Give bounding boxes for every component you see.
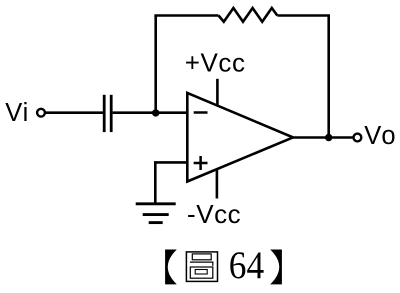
wire feedback top right segment xyxy=(277,14,330,17)
wire op-amp output xyxy=(293,136,354,139)
op-amp U1 triangle xyxy=(187,93,293,182)
+Vcc label xyxy=(185,47,246,77)
node Vi label xyxy=(5,99,29,127)
caption character 圖 xyxy=(186,252,217,282)
svg-text:64: 64 xyxy=(229,244,264,287)
wire feedback left vertical xyxy=(154,16,157,113)
wire -Vcc supply to op-amp bottom xyxy=(216,170,219,199)
wire Vi terminal to capacitor xyxy=(45,111,103,114)
wire capacitor to op-amp inverting input xyxy=(113,111,188,114)
ground xyxy=(136,204,176,223)
input terminal Vi xyxy=(37,109,45,117)
wire feedback right vertical xyxy=(327,16,330,138)
wire feedback top left segment xyxy=(154,14,218,17)
op-amp non-inverting input plus sign xyxy=(194,156,208,170)
svg-text:+Vcc: +Vcc xyxy=(185,47,246,77)
capacitor C1 xyxy=(104,95,111,132)
node A junction dot xyxy=(152,109,159,116)
wire +Vcc supply to op-amp top xyxy=(216,79,219,106)
svg-text:Vi: Vi xyxy=(5,99,29,127)
caption left lenticular bracket xyxy=(165,250,177,285)
svg-text:-Vcc: -Vcc xyxy=(187,199,241,229)
resistor R1 xyxy=(219,8,278,22)
-Vcc label xyxy=(187,199,241,229)
op-amp inverting input minus sign xyxy=(194,111,208,114)
node B output junction dot xyxy=(325,134,332,141)
node Vo label xyxy=(364,122,397,150)
wire non-inverting input to ground xyxy=(155,162,187,203)
caption text 64 xyxy=(229,244,264,287)
caption right lenticular bracket xyxy=(270,250,282,285)
svg-text:Vo: Vo xyxy=(364,122,397,150)
output terminal Vo xyxy=(354,134,362,142)
